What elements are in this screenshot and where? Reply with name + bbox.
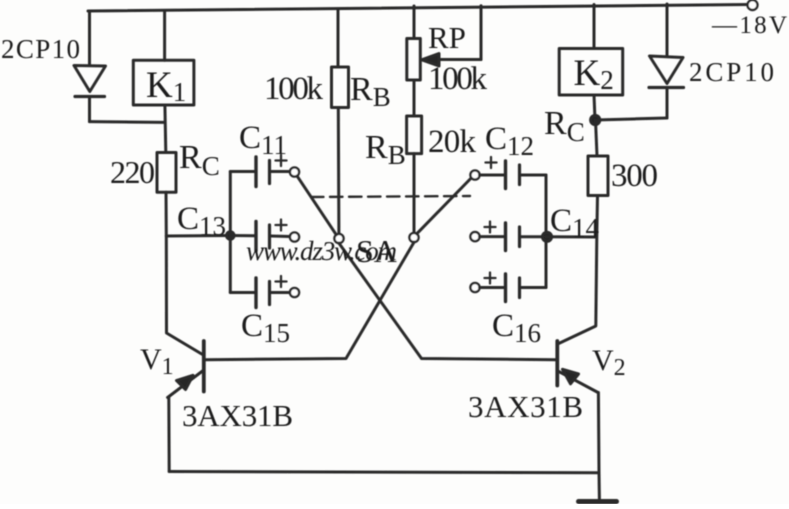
wire resistor RB2 to switch common right — [413, 154, 416, 233]
wire top supply rail — [88, 5, 749, 12]
wire V2 emitter to ground rail — [597, 393, 601, 473]
svg-text:2CP10: 2CP10 — [689, 57, 774, 87]
svg-text:100k: 100k — [428, 61, 488, 97]
wire resistor RC2 to V2 collector — [559, 196, 598, 344]
diode D1 2CP10 left — [74, 11, 106, 122]
wire rail to relay K2 — [593, 5, 596, 49]
svg-text:100k: 100k — [264, 71, 324, 107]
potentiometer RP wiper arrow — [422, 6, 481, 66]
svg-text:RP: RP — [428, 20, 466, 55]
wire relay K2 to node — [594, 95, 595, 120]
capacitor C14 — [470, 222, 546, 251]
capacitor C16 — [470, 273, 546, 302]
node C13 junction dot — [227, 232, 235, 240]
wire cross-couple right common to V1 base — [206, 242, 414, 360]
diode D2 2CP10 right — [649, 4, 684, 118]
wire rail to resistor RB1 — [337, 9, 340, 67]
resistor RC1 220 — [157, 153, 176, 193]
resistor RC2 300 — [588, 156, 608, 196]
svg-text:3AX31B: 3AX31B — [468, 389, 583, 424]
wire node to capacitor bus left — [166, 234, 230, 238]
wire RP to resistor RB2 — [413, 80, 416, 116]
capacitor C13 — [230, 220, 299, 252]
switch SA coupling dashed — [311, 196, 470, 197]
switch SA right blade — [417, 178, 472, 234]
wire node C14 to V2 collector column — [546, 235, 597, 238]
wire rail to relay K1 — [163, 11, 166, 61]
resistor RB1 100k — [332, 67, 349, 108]
wire node to resistor RC2 — [596, 120, 598, 156]
transistor V1 3AX31B — [168, 341, 204, 398]
capacitor C11 — [230, 155, 299, 187]
transistor V2 3AX31B — [557, 341, 598, 393]
wire relay K1 to resistor RC1 — [163, 105, 167, 153]
wire capacitor bank left bus — [229, 172, 232, 293]
switch SA right common contact — [409, 233, 418, 242]
svg-text:220: 220 — [110, 154, 155, 190]
node C14 junction dot — [542, 232, 551, 241]
capacitor C12 — [470, 157, 546, 189]
wire cross-couple left common to V2 base — [339, 243, 555, 360]
wire resistor RB1 to switch common — [337, 108, 341, 234]
resistor RB2 20k — [407, 116, 422, 154]
relay K1 — [133, 60, 194, 105]
svg-text:SA: SA — [356, 233, 397, 269]
svg-text:2CP10: 2CP10 — [1, 34, 80, 64]
svg-text:300: 300 — [611, 158, 658, 194]
svg-text:20k: 20k — [428, 124, 477, 160]
potentiometer RP body — [407, 39, 421, 81]
wire diode D2 to node — [595, 118, 667, 120]
ground — [579, 473, 617, 502]
relay K2 — [559, 49, 623, 96]
node K2/diode junction dot — [591, 115, 600, 124]
switch SA left common contact — [334, 234, 343, 243]
wire diode D1 to relay K1 branch — [90, 120, 165, 124]
wire rail to potentiometer RP — [413, 6, 416, 39]
wire capacitor bank right bus — [545, 175, 548, 288]
wire bottom emitter rail — [169, 472, 599, 473]
svg-text:3AX31B: 3AX31B — [182, 398, 293, 433]
switch SA left blade — [297, 176, 336, 235]
wire V1 emitter to ground rail — [167, 398, 170, 472]
terminal -18V — [748, 0, 758, 10]
svg-text:—18V: —18V — [711, 12, 787, 39]
wire resistor RC1 to node C13 / V1 collector — [166, 192, 203, 354]
capacitor C15 — [230, 276, 299, 308]
